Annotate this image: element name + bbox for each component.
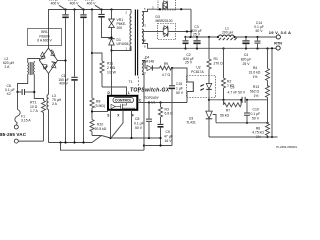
resistor R13 [250,85,270,124]
wire: source node A [111,137,161,139]
svg-text:T1: T1 [129,80,133,84]
svg-text:R11: R11 [107,62,113,66]
resistor R3 [159,103,174,124]
wire: line sense column x=91.5 [91,10,93,99]
svg-text:(3 MΩ): (3 MΩ) [95,104,105,108]
capacitor C5 [158,124,173,146]
resistor R8 [90,98,105,120]
diode D4 [142,56,160,71]
capacitor C15 [169,68,184,146]
svg-text:4.7 Ω: 4.7 Ω [162,73,171,77]
capacitor C8 [134,103,152,139]
wire: L2 left down to line [18,75,28,93]
svg-text:200: 200 [117,26,123,30]
svg-text:F: F [132,114,134,118]
wire: secondary return pin [142,44,151,49]
svg-text:C5: C5 [166,130,170,134]
wire: top DC bus [49,10,132,49]
svg-text:TOPSwitch-GX: TOPSwitch-GX [130,88,170,94]
wire: secondary pin to D3 package [142,6,191,12]
label TOPSwitch-GX [130,88,170,94]
wire: R11 to L pin [102,87,127,96]
resistor R1 [207,37,223,76]
wire: L2 to bridge [28,59,40,63]
capacitor C10 [244,99,260,124]
capacitor C2p top label (cut) [85,0,101,9]
svg-text:TOP249Y: TOP249Y [144,96,160,100]
svg-text:20.5 kΩ: 20.5 kΩ [95,127,107,131]
wire: ref line [216,122,269,124]
capacitor C9 [228,85,246,103]
wire: bridge + to cap column [58,59,67,61]
wire: bias winding return [142,75,145,151]
svg-text:X2: X2 [7,92,11,96]
wire: secondary pin to D2 package [142,32,158,43]
svg-text:CONTROL: CONTROL [115,99,132,103]
svg-text:RTN: RTN [274,41,282,45]
svg-text:R7: R7 [226,109,230,113]
svg-text:1 kΩ: 1 kΩ [227,84,235,88]
capacitor C2 [183,37,194,65]
capacitor C6 [5,84,35,96]
svg-text:25 V: 25 V [193,33,201,37]
svg-text:400 V: 400 V [70,1,80,5]
svg-text:400 V: 400 V [51,1,61,5]
wire: C pin [138,98,188,104]
svg-text:R1: R1 [214,57,218,61]
capacitor column x=66 (bulk cap) [62,10,68,143]
TL431 U3 [186,111,216,137]
svg-text:85-265 VAC: 85-265 VAC [0,132,27,137]
capacitor C14 [254,21,264,49]
node clamp/drain [110,36,112,51]
wire: S X F pins down [111,110,132,138]
svg-text:U2: U2 [196,65,200,69]
capacitor column x=83 (bulk cap) [80,10,86,143]
resistor R4 [249,49,270,87]
resistor R6 [252,124,269,139]
svg-text:C10: C10 [253,107,259,111]
svg-text:R10: R10 [97,123,103,127]
svg-text:C15: C15 [176,82,182,86]
diode D3 dual package [156,0,176,23]
svg-text:1.7 A: 1.7 A [30,109,38,113]
svg-text:19 V, 3.6 A: 19 V, 3.6 A [269,30,291,35]
svg-text:25 V: 25 V [185,61,193,65]
svg-text:1%: 1% [253,75,258,79]
svg-text:6 A 600 V: 6 A 600 V [37,39,52,43]
diode D2 dual package [158,24,176,40]
svg-text:1%: 1% [254,94,259,98]
bridge rectifier BR1 [40,48,58,74]
svg-text:270 Ω: 270 Ω [214,62,224,66]
wire: L2 right down [34,75,43,101]
svg-text:0.1 µF: 0.1 µF [134,122,144,126]
diode D1 [108,38,128,96]
wire: +19V rail [187,36,276,38]
svg-text:R4: R4 [253,66,257,70]
svg-text:TL431: TL431 [186,121,196,125]
label U1 [144,96,160,105]
thermistor RT1 [30,101,46,142]
svg-text:200 µH: 200 µH [222,30,234,34]
svg-text:R9: R9 [164,62,168,66]
svg-text:3.15 A: 3.15 A [21,119,31,123]
wire: R8 to U1 body [91,110,108,112]
svg-text:C8: C8 [135,117,139,121]
wire: drain [112,48,132,51]
svg-text:2 A: 2 A [52,102,58,106]
terminal AC bottom [14,139,43,143]
svg-text:16 V: 16 V [165,139,173,143]
transformer T1 [126,7,147,84]
resistor R9 [160,62,172,77]
svg-text:6.8 Ω: 6.8 Ω [165,112,174,116]
optocoupler U2 [187,65,216,97]
clamp column x=111 [111,10,113,20]
capacitor C1 column x=74 [71,10,77,143]
terminal +19V [269,30,291,39]
svg-text:562 Ω: 562 Ω [250,89,260,93]
svg-text:1 µF: 1 µF [176,87,183,91]
capacitor C4 [241,37,252,66]
label C1 [58,74,69,86]
wire: RTN drop [271,47,273,138]
svg-text:1N4148: 1N4148 [142,60,154,64]
capacitor C13 top label (cut) [68,0,83,9]
svg-text:C4: C4 [244,53,248,57]
svg-text:56 kΩ: 56 kΩ [220,113,229,117]
zener VR1 [109,18,127,39]
wire: control ground jog [144,145,172,147]
svg-text:400 V: 400 V [59,82,69,86]
capacitor C12 top label (cut) [49,0,65,9]
svg-text:UF4006: UF4006 [117,42,129,46]
svg-text:4.7 nF 50 V: 4.7 nF 50 V [228,91,246,95]
capacitor clamp column x=101 [98,10,111,38]
bridge BR1 label box [28,29,62,46]
label PI number [276,145,297,149]
capacitor C3 [191,25,202,48]
svg-text:25 V: 25 V [243,62,251,66]
wire: R10 to source node (diagonals) [92,136,112,143]
wire: secondary return rail [151,47,276,49]
inductor L1 [219,26,237,40]
resistor R10 [90,120,107,136]
wire: bottom DC rail [49,142,93,144]
wire: primary return rail [61,143,145,151]
resistor R7 [220,99,242,118]
wire: bias rail to opto collector [171,67,187,76]
wire: D2/D3 outputs to +rail [176,9,193,37]
svg-text:R13: R13 [253,85,259,89]
resistor R11 [100,61,117,87]
wire: bridge bottom to L3 [48,74,50,95]
svg-text:50 V: 50 V [256,29,264,33]
svg-text:PI-2694-050901: PI-2694-050901 [276,145,297,149]
resistor R2 [222,48,235,101]
terminal AC top [14,125,18,129]
svg-text:2 A: 2 A [5,65,11,69]
node dots on top bus [64,8,112,10]
svg-text:50 V: 50 V [135,126,143,130]
inductor L3 [47,94,62,143]
svg-text:0.1 µF: 0.1 µF [251,112,261,116]
svg-text:50 V: 50 V [176,91,184,95]
svg-text:S: S [107,114,109,118]
wire: isolation barrier dashed [137,77,139,103]
fuse F1 [15,92,31,125]
inductor L2 common mode choke [3,57,34,75]
wire: sense jog to R11 [92,53,102,61]
node on sense column [91,52,93,54]
terminal RTN [274,41,282,50]
svg-text:400 V: 400 V [87,1,97,5]
label AC input [0,132,27,137]
svg-text:PC817A: PC817A [191,70,204,74]
wire: secondary ground rail [209,136,278,138]
TOPSwitch-GX IC U1 [107,91,142,118]
svg-text:50 V: 50 V [252,116,260,120]
wire: C9 branch [208,98,268,112]
svg-text:MBR20100: MBR20100 [156,19,173,23]
